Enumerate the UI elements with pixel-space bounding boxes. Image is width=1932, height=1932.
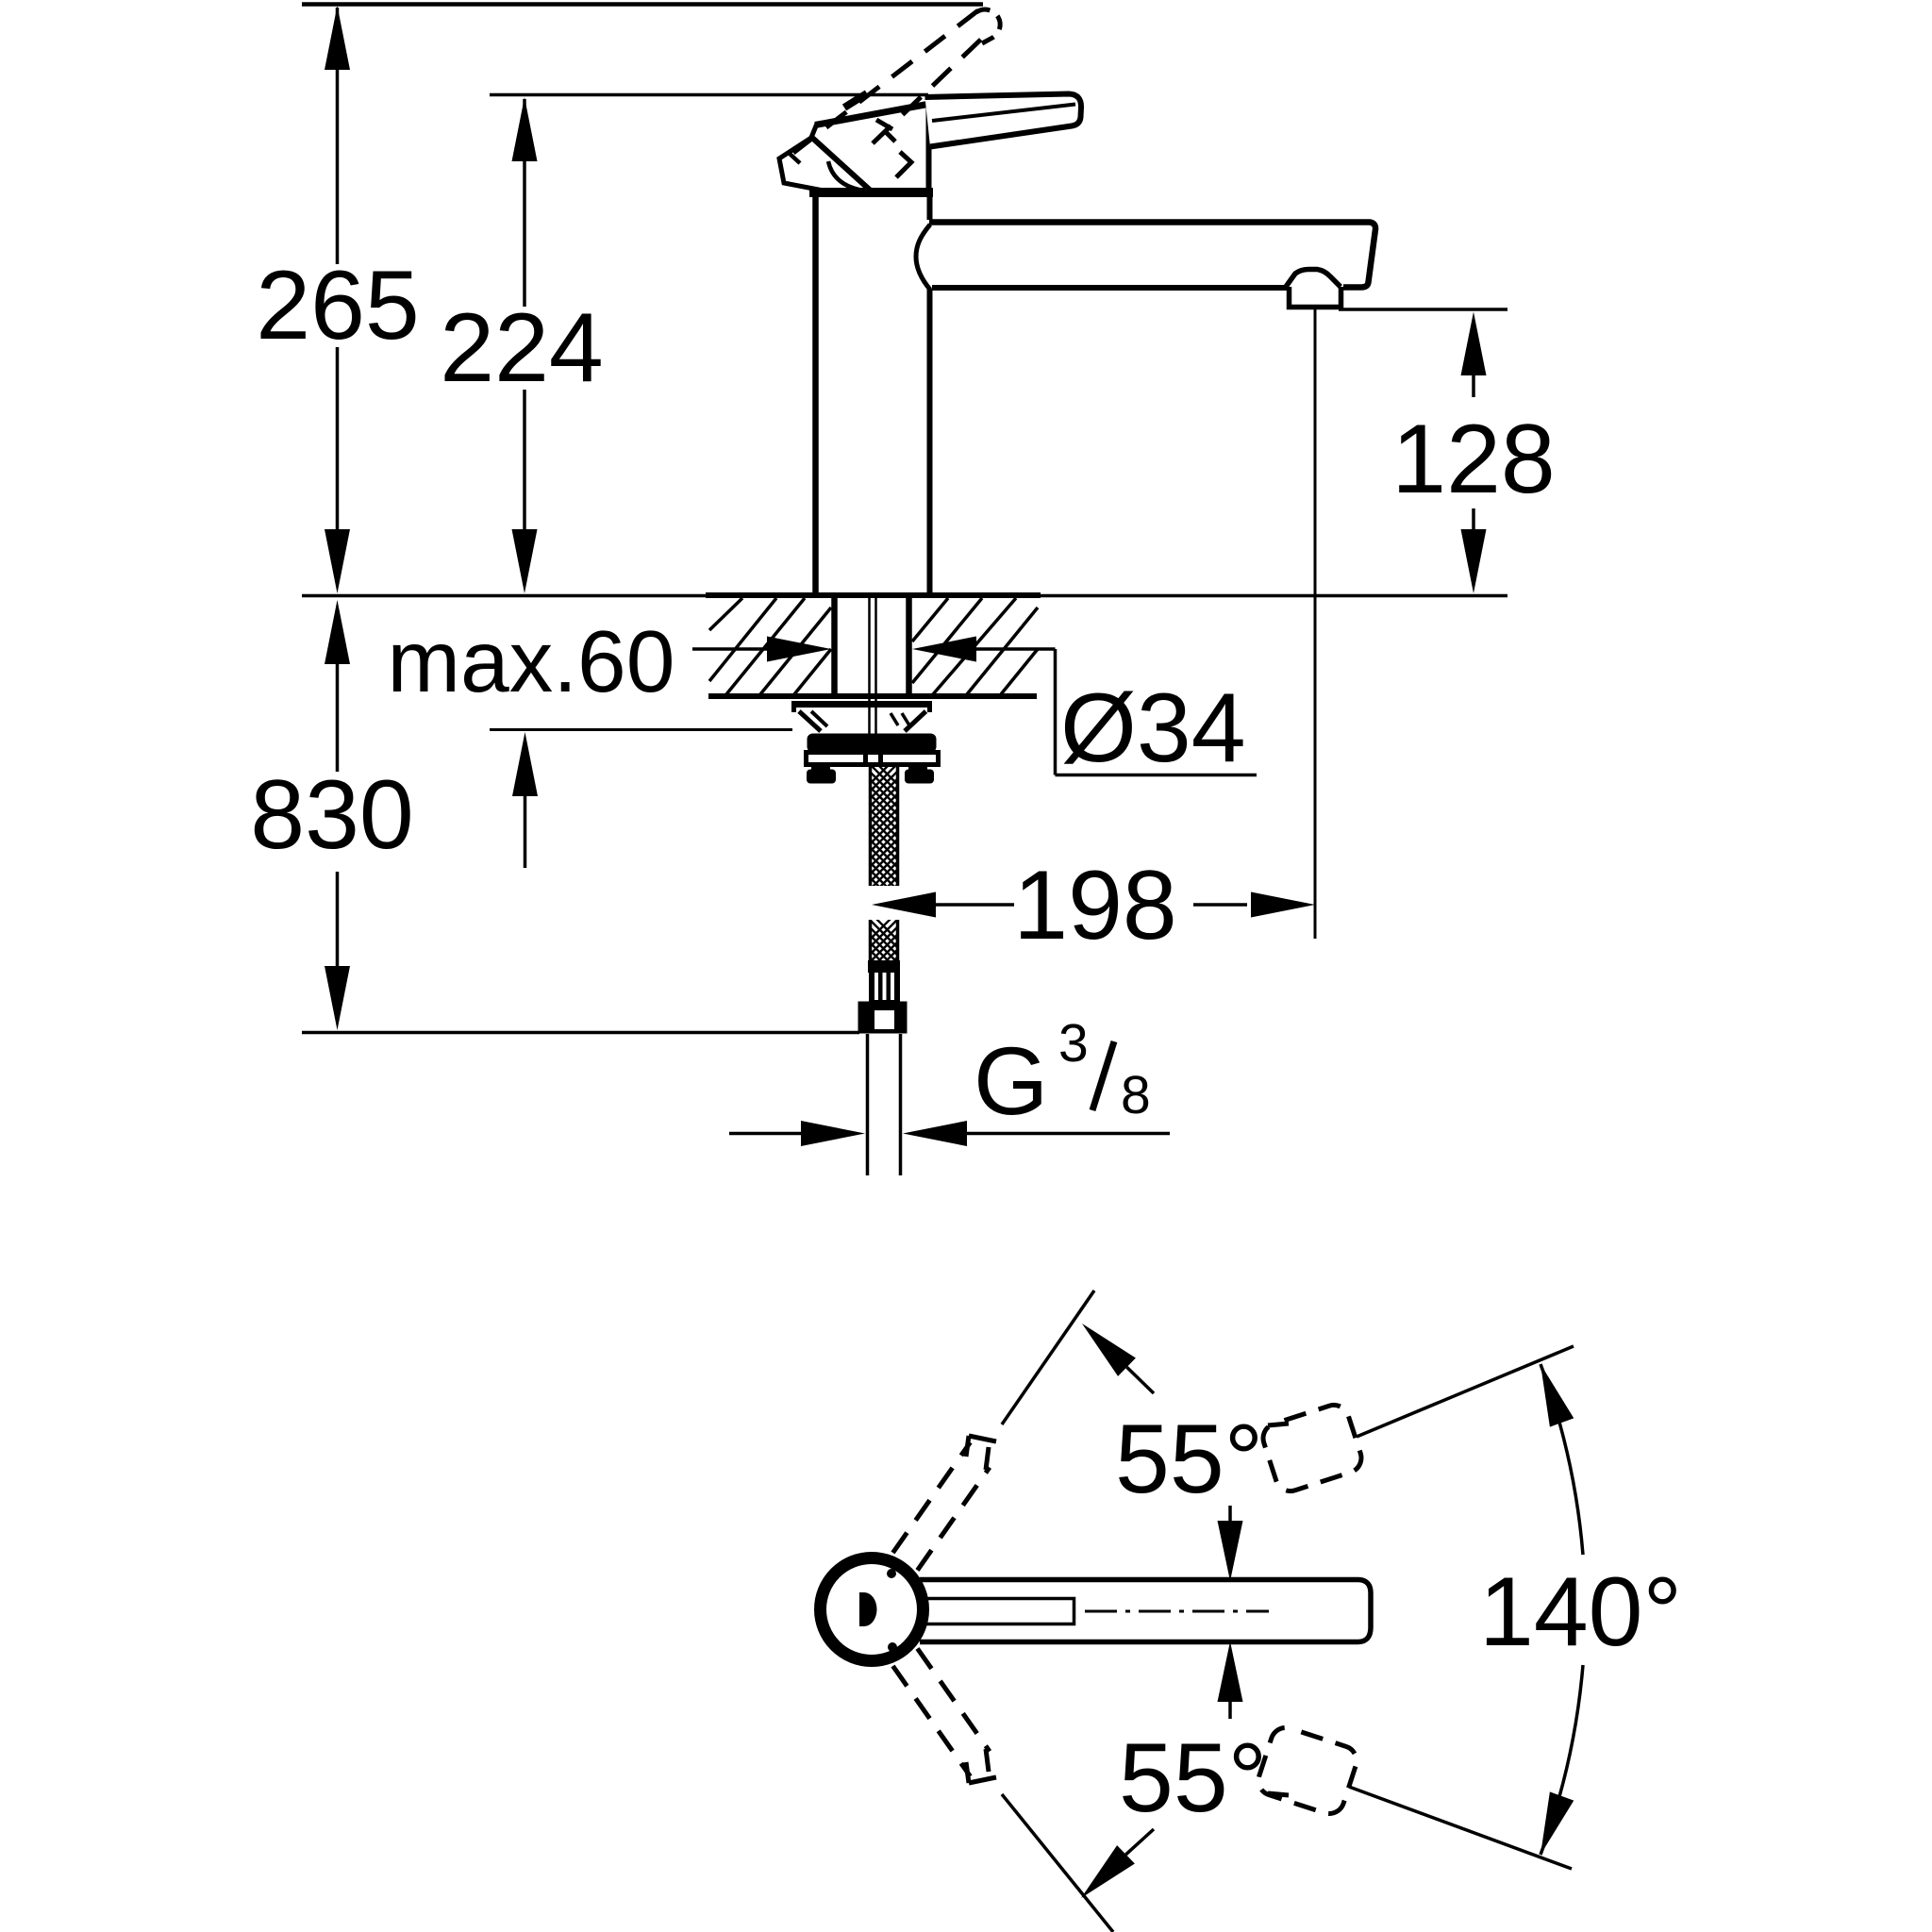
140 deg arc upper part [1541,1364,1583,1555]
countertop line [302,594,1507,598]
dimension 128 [1461,312,1487,594]
fixing bolt left [807,764,836,784]
svg-text:224: 224 [440,293,604,403]
aerator box [1290,287,1341,308]
extension line 224 ref [490,93,928,97]
55 deg lower dimension arrows [1081,1641,1243,1898]
svg-text:140°: 140° [1479,1557,1682,1667]
braided hose lower segment [870,912,898,985]
140 deg leg upper [1357,1346,1574,1437]
flange cone left [799,711,821,731]
mounting shank walls [831,597,838,699]
svg-text:128: 128 [1391,405,1556,514]
dashed handle position lower edge1 [893,1666,971,1776]
spout neck fillet arc [916,225,930,290]
underside hardware ref line [490,728,792,731]
flange plate [792,701,931,708]
dashed handle position upper edge1 [893,1442,971,1553]
140 deg arc lower part [1541,1665,1583,1855]
top view cartridge mark [859,1592,877,1626]
dashed notch lower [966,1749,996,1783]
spout axis extension line [1314,309,1317,939]
top view centreline dash-dot [1085,1610,1269,1613]
label G 3/8 [974,1013,1151,1135]
svg-text:8: 8 [1121,1065,1151,1125]
55 deg upper dimension arrows [1082,1324,1243,1581]
head right edge [926,104,932,192]
head bottom band [809,188,933,197]
braided hose upper segment [870,757,898,912]
faucet body right edge upper [927,194,933,220]
seal ring (black band) [808,734,937,753]
fixing bolt right [905,764,934,784]
head nose flap [779,138,828,192]
dashed handle position upper edge2 [918,1468,991,1571]
leader for Ø34 [1056,649,1257,775]
connection nut G3/8 [858,1002,908,1034]
top view spout inner slot [926,1599,1074,1624]
svg-text:198: 198 [1013,851,1177,960]
svg-text:max.60: max.60 [388,612,675,710]
aerator dome [1286,270,1341,288]
dimension 224 [512,97,538,593]
dashed lever end cap [976,9,1000,43]
dashed spout end bracket upper [1259,1401,1365,1494]
deck hatch right [912,598,1038,694]
140 deg leg lower [1349,1787,1572,1869]
leader dash upper 55 [1268,1424,1289,1425]
flange cone right [905,711,926,731]
dimension 265 [325,6,350,593]
countertop thick section [706,592,1041,598]
dimension 830 [325,600,350,1030]
top view screw dot lower [888,1642,897,1652]
140 arc arrow lower [1541,1791,1574,1855]
supply hose lines through shank [868,597,871,736]
svg-text:265: 265 [256,251,420,360]
svg-text:55°: 55° [1119,1724,1267,1833]
dashed handle position lower edge2 [918,1649,991,1752]
spout outlet ref line (128 top) [1339,308,1507,311]
svg-text:G: G [974,1027,1048,1135]
lever (solid, horizontal) [925,94,1082,147]
top view spout bar [920,1580,1371,1642]
head top edge [815,104,930,125]
connection tube end [866,1034,870,1175]
dashed lever raised: lower edge [873,29,991,143]
spout top edge and tip [929,223,1375,288]
deck hatch left [709,598,831,694]
dashed chevron in head [896,152,911,177]
dashed lever raised: upper edge [793,10,978,153]
lever inner line [932,105,1075,122]
boundary line lower (55 deg) [1002,1794,1113,1932]
leader dash lower 55 [1268,1793,1289,1795]
svg-text:830: 830 [250,760,414,870]
faucet body left edge [812,194,819,593]
mounting washer bracket [807,753,939,765]
top view screw dot upper [887,1569,896,1578]
svg-text:55°: 55° [1115,1405,1263,1514]
top view body circle [821,1558,924,1661]
counter bottom line [708,693,1037,699]
head lower-left slant [812,138,873,192]
extension line top (265 ref) [302,2,983,7]
svg-text:3: 3 [1058,1013,1089,1074]
dashed lever thick overlay dash [844,93,867,108]
boundary line upper (55 deg) [1002,1291,1094,1424]
faucet body right edge lower [927,289,933,593]
140 arc arrow upper [1541,1364,1574,1427]
hose crimp collar [868,960,900,973]
head left corner edge [811,124,818,139]
svg-text:Ø34: Ø34 [1060,674,1246,783]
hose threaded nipple [869,972,900,1002]
dimension G 3/8 [729,1121,1170,1146]
sub-counter open dimension arrow [512,732,538,868]
dashed cartridge marks [876,120,892,129]
spout bottom edge [932,285,1289,291]
dashed spout end bracket lower [1255,1724,1360,1817]
dimension 198 [872,892,1315,918]
nose inner dash [789,153,800,163]
hose end ref line [302,1031,859,1035]
head nose arc [828,161,870,192]
dashed notch upper [966,1436,996,1470]
dimension max.60 [692,637,1056,662]
